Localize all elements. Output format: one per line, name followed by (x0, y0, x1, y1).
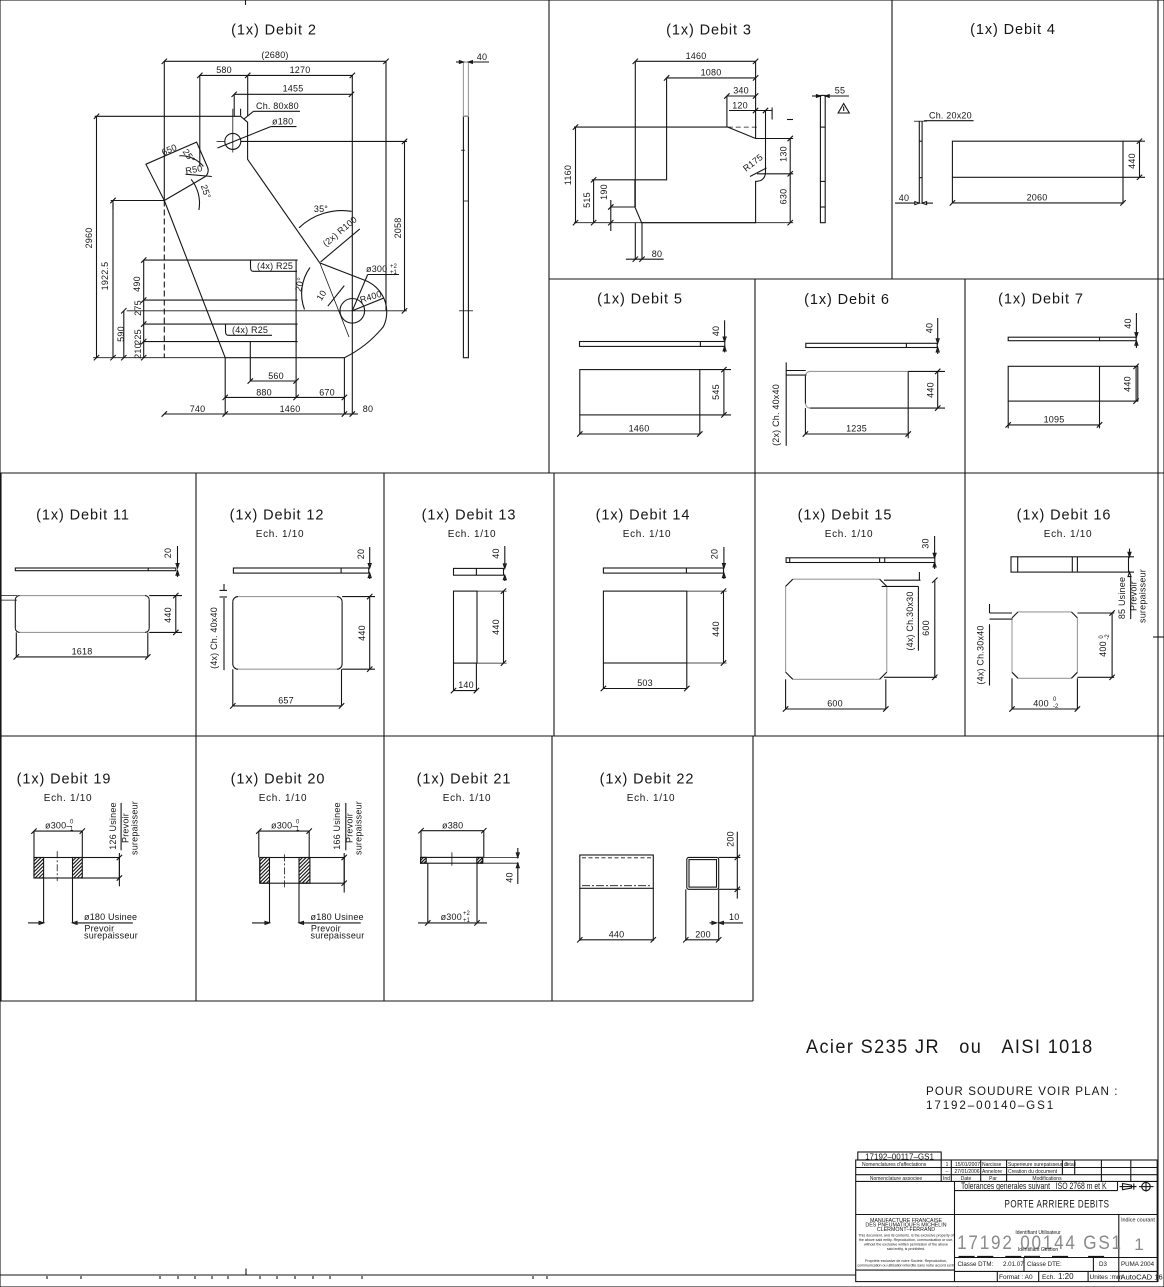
svg-text:Ech. 1/10: Ech. 1/10 (627, 793, 676, 804)
Debit 19 bore projection lines (44, 878, 73, 923)
svg-text:880: 880 (256, 388, 272, 398)
svg-text:(1x) Debit 16: (1x) Debit 16 (1017, 508, 1112, 524)
Debit 14 dimension 440 (711, 588, 726, 665)
svg-text:(4x) R25: (4x) R25 (232, 325, 268, 335)
svg-text:Unites :mm: Unites :mm (1090, 1274, 1123, 1281)
svg-text:1460: 1460 (686, 51, 707, 61)
Debit 2 angle 20 (293, 268, 310, 310)
svg-text:40: 40 (899, 193, 909, 203)
svg-text:440: 440 (491, 619, 501, 635)
svg-text:40: 40 (711, 326, 721, 336)
svg-text:1: 1 (1134, 1235, 1143, 1254)
Debit 22 tube section (686, 857, 719, 940)
svg-text:210: 210 (133, 343, 143, 359)
Debit 2 pocket lower label (4x) R25 (226, 324, 273, 336)
Debit 4 part rectangle (952, 141, 1123, 177)
Debit 5 dimension 1460 (577, 415, 702, 437)
svg-text:Tolerances generales suivant: Tolerances generales suivant ISO 2768 m … (961, 1181, 1107, 1191)
svg-text:(1x) Debit 14: (1x) Debit 14 (596, 508, 691, 524)
Debit 19 flange section (34, 858, 119, 879)
Debit 7 part rectangle (1008, 366, 1138, 428)
svg-text:490: 490 (132, 276, 142, 292)
Debit 20 note Prevoir surepaisseur bottom (311, 924, 365, 941)
svg-text:440: 440 (1127, 153, 1137, 169)
svg-text:(1x) Debit 12: (1x) Debit 12 (230, 508, 325, 524)
Debit 4 chamfer label Ch. 20x20 (924, 111, 974, 121)
svg-text:10: 10 (314, 288, 328, 302)
Debit 6 bar dimension 40 (925, 318, 940, 354)
Debit 21 centerline tick (451, 852, 453, 865)
Debit 15 dimension 600 bottom (783, 679, 889, 711)
Debit 3 dimension 1460 (633, 51, 759, 207)
svg-text:surepaisseur: surepaisseur (354, 801, 364, 855)
Debit 6 part outline (805, 371, 908, 438)
Debit 2 side bar (459, 62, 473, 358)
svg-text:440: 440 (926, 382, 936, 398)
Debit 20 note Prevoir surepaisseur right (345, 801, 364, 855)
Debit 11 part outline (0, 596, 149, 633)
Debit 2 dimension 560 (248, 342, 299, 384)
svg-text:ø180 Usinee: ø180 Usinee (84, 912, 137, 922)
title block row headers (870, 1176, 1062, 1182)
Debit 3 side bar dimension 55 (812, 86, 849, 98)
svg-text:657: 657 (278, 696, 294, 706)
svg-text:1455: 1455 (283, 84, 304, 94)
Debit 2 tab angle 25 bottom (111, 179, 213, 210)
svg-text:surepaisseur: surepaisseur (1138, 569, 1148, 623)
Debit 4 side bar dimension 40 (895, 193, 933, 205)
Debit 2 dimension 1455 (232, 84, 355, 117)
Debit 16 bar dimension 85 Usinee (1117, 549, 1134, 620)
svg-text:400: 400 (1033, 699, 1049, 709)
Debit 12 dimension 657 (230, 669, 344, 708)
svg-text:Indice courant: Indice courant (1121, 1218, 1155, 1224)
svg-text:440: 440 (357, 625, 367, 641)
company name (865, 1218, 946, 1233)
Debit 2 dimension 2058 (241, 139, 407, 314)
svg-text:Acier S235 JR ou AISI 1018: Acier S235 JR ou AISI 1018 (806, 1035, 1094, 1057)
Debit 13 dimension 440 (491, 588, 506, 665)
Debit 14 dimension 503 (601, 663, 690, 691)
svg-text:+2: +2 (463, 911, 471, 917)
Debit 11 bar dimension 20 (163, 546, 179, 577)
svg-text:(4x) R25: (4x) R25 (257, 261, 293, 271)
title block row creation (946, 1169, 1058, 1175)
svg-text:PORTE ARRIERE DEBITS: PORTE ARRIERE DEBITS (1005, 1198, 1110, 1211)
svg-text:(1x) Debit 4: (1x) Debit 4 (970, 22, 1056, 38)
svg-text:said entity, is prohibited.: said entity, is prohibited. (887, 1247, 925, 1251)
svg-text:1460: 1460 (629, 424, 650, 434)
svg-text:1460: 1460 (280, 404, 301, 414)
Debit 3 dimension 80 (626, 223, 664, 262)
Debit 13 bar dimension 40 (491, 546, 506, 581)
Debit 12 bar dimension 20 (356, 547, 371, 579)
svg-text:Annelore: Annelore (982, 1169, 1002, 1175)
svg-text:126 Usinee: 126 Usinee (108, 802, 118, 850)
svg-text:30: 30 (921, 538, 931, 548)
Debit 11 dimension 1618 (14, 632, 151, 659)
Debit 13 part rectangle (454, 591, 507, 663)
svg-text:(4x) Ch.30x30: (4x) Ch.30x30 (905, 591, 915, 650)
svg-text:1:20: 1:20 (1058, 1272, 1074, 1281)
svg-text:560: 560 (268, 371, 284, 381)
svg-text:Ech. 1/10: Ech. 1/10 (1044, 529, 1093, 540)
svg-text:15/01/2007: 15/01/2007 (955, 1162, 980, 1168)
Debit 7 dimension 440 (1123, 364, 1139, 404)
bottom ruler dots (47, 1276, 547, 1279)
Debit 19 boss projection lines (34, 831, 82, 857)
sheet edge tick right (1153, 636, 1164, 638)
Debit 19 note Prevoir surepaisseur bottom (84, 924, 138, 941)
Debit 15 part outline octagon (786, 579, 887, 679)
svg-text:Ech. 1/10: Ech. 1/10 (448, 529, 497, 540)
svg-text:140: 140 (458, 680, 474, 690)
svg-text:(1x) Debit 21: (1x) Debit 21 (417, 772, 512, 788)
svg-text:ø180: ø180 (272, 117, 293, 127)
svg-text:80: 80 (652, 249, 662, 259)
Debit 2 hole circle d180 (217, 109, 241, 153)
Debit 20 bore projection lines (270, 883, 300, 923)
Debit 16 dimension 400 right (1077, 610, 1114, 680)
Debit 4 side bar (914, 121, 927, 203)
svg-text:130: 130 (779, 146, 789, 162)
Debit 3 dimension 1080 (664, 68, 758, 128)
svg-text:(1x) Debit 11: (1x) Debit 11 (36, 508, 130, 524)
svg-text:+1: +1 (390, 270, 398, 276)
svg-text:Ch. 20x20: Ch. 20x20 (929, 111, 972, 121)
Debit 12 top bar (233, 568, 368, 573)
Debit 2 hole circle d300 (127, 263, 407, 337)
Debit 20 boss projection lines (259, 831, 309, 857)
svg-text:(1x) Debit 7: (1x) Debit 7 (998, 292, 1084, 308)
svg-text:630: 630 (779, 189, 789, 205)
svg-text:ø180 Usinee: ø180 Usinee (311, 912, 364, 922)
svg-text:Classe DTM:: Classe DTM: (958, 1261, 994, 1268)
Debit 2 dimension 1922.5 (100, 198, 116, 361)
sheet fold tick top (245, 0, 247, 5)
svg-text:1618: 1618 (72, 647, 93, 657)
Debit 19 dimension 126 Usinee (108, 802, 122, 886)
svg-text:740: 740 (190, 404, 206, 414)
svg-text:1270: 1270 (290, 65, 311, 75)
Debit 11 dimension 440 (149, 593, 182, 635)
svg-text:surepaisseur: surepaisseur (311, 930, 365, 940)
Debit 19 hole label d300 (31, 820, 85, 834)
Debit 2 dimension column 490 275 225 210 (132, 257, 146, 360)
Debit 3 fillet label R175 (741, 152, 766, 177)
Debit 2 dimension 580 (197, 65, 250, 166)
svg-text:40: 40 (477, 52, 487, 62)
svg-text:This document, and its content: This document, and its contents, is the … (858, 1234, 953, 1238)
Debit 3 warning triangle (838, 104, 849, 114)
Debit 2 part outline (95, 116, 387, 357)
Debit 3 dimension 340 (724, 86, 758, 128)
svg-text:Ech. 1/10: Ech. 1/10 (259, 793, 308, 804)
Debit 2 dimension (2680) (162, 50, 389, 358)
Debit 7 dimension 1095 (1006, 401, 1103, 428)
svg-text:2.01.07: 2.01.07 (1003, 1261, 1024, 1268)
svg-text:0: 0 (296, 820, 300, 826)
svg-text:2960: 2960 (84, 228, 94, 249)
Debit 15 chamfer label (4x) Ch.30x30 (882, 572, 921, 651)
Debit 3 side bar (820, 95, 825, 222)
svg-text:166 Usinee: 166 Usinee (332, 802, 342, 850)
svg-text:(4x) Ch. 40x40: (4x) Ch. 40x40 (209, 607, 219, 669)
svg-text:1095: 1095 (1044, 415, 1065, 425)
svg-text:1080: 1080 (701, 68, 722, 78)
Debit 2 dimension 1270 (248, 65, 355, 311)
svg-text:(1x) Debit 22: (1x) Debit 22 (600, 772, 695, 788)
Debit 7 top bar (1008, 337, 1136, 341)
svg-text:440: 440 (711, 621, 721, 637)
svg-text:Ech.: Ech. (1042, 1274, 1055, 1281)
Debit 2 dimension 80 (344, 311, 373, 417)
svg-text:1160: 1160 (563, 165, 573, 185)
svg-text:(2680): (2680) (261, 50, 288, 60)
svg-text:Ind: Ind (943, 1176, 950, 1182)
svg-text:(1x) Debit 3: (1x) Debit 3 (666, 23, 752, 39)
Debit 5 dimension 545 (700, 367, 731, 418)
form blank dashes (959, 1255, 1105, 1257)
svg-text:40: 40 (505, 872, 515, 882)
Debit 15 dimension 600 right (884, 578, 938, 681)
svg-text:Ech. 1/10: Ech. 1/10 (825, 529, 874, 540)
Debit 21 plate section (421, 857, 519, 863)
Debit 19 centerline (56, 851, 58, 881)
svg-text:340: 340 (733, 86, 749, 96)
Debit 2 dimension 880 (223, 300, 299, 400)
Debit 16 top bar (1011, 557, 1129, 572)
svg-text:Ech. 1/10: Ech. 1/10 (443, 793, 492, 804)
legal text en (858, 1234, 953, 1252)
title block row nomenclatures (862, 1162, 1076, 1168)
Debit 2 chamfer label Ch. 80x80 (241, 101, 300, 119)
svg-text:440: 440 (1123, 376, 1133, 392)
Debit 12 chamfer label (4x) Ch. 40x40 (209, 584, 227, 670)
svg-text:80: 80 (363, 404, 373, 414)
svg-text:Creation du document: Creation du document (1008, 1169, 1058, 1175)
Debit 4 dimension 440 (1123, 139, 1145, 181)
svg-text:20: 20 (163, 548, 173, 558)
svg-text:ø380: ø380 (442, 821, 463, 831)
svg-text:55: 55 (835, 86, 845, 96)
svg-text:ø300: ø300 (366, 264, 387, 274)
svg-text:(1x) Debit 15: (1x) Debit 15 (798, 508, 893, 524)
svg-text:25°: 25° (199, 183, 213, 200)
svg-text:225: 225 (133, 329, 143, 345)
Debit 2 pocket upper (144, 260, 298, 300)
svg-text:D3: D3 (1099, 1261, 1107, 1268)
svg-text:without the exclusive written: without the exclusive written permission… (864, 1243, 948, 1247)
svg-text:–: – (946, 1169, 949, 1175)
svg-text:0: 0 (1053, 697, 1057, 703)
Debit 20 label d180 Usinee (252, 912, 364, 924)
svg-text:(2x) Ch. 40x40: (2x) Ch. 40x40 (771, 384, 781, 446)
title block frame (856, 1152, 1157, 1282)
Debit 21 dimension 40 (505, 848, 520, 884)
svg-text:Nomenclatures d'affectations: Nomenclatures d'affectations (862, 1162, 927, 1168)
Debit 21 hole label d380 (418, 821, 486, 834)
legal text fr (857, 1259, 954, 1268)
Debit 16 note Prevoir surepaisseur right (1129, 569, 1148, 623)
svg-text:Ech. 1/10: Ech. 1/10 (623, 529, 672, 540)
svg-text:ø300–: ø300– (271, 821, 298, 831)
Debit 22 dimension 200 bottom (683, 930, 721, 943)
svg-text:Ech. 1/10: Ech. 1/10 (44, 793, 93, 804)
svg-text:ø300: ø300 (441, 912, 462, 922)
Debit 7 bar dimension 40 (1123, 313, 1138, 348)
svg-text:440: 440 (609, 930, 625, 940)
projection symbol target (1139, 1182, 1154, 1192)
projection symbol cone (1120, 1184, 1137, 1190)
Debit 2 tab fillet label R50 (185, 163, 212, 176)
Debit 22 dimension 10 wall (710, 912, 744, 924)
svg-text:670: 670 (319, 388, 335, 398)
svg-text:85 Usinee: 85 Usinee (1117, 577, 1127, 619)
svg-text:600: 600 (827, 699, 843, 709)
Debit 3 dimension 120 (729, 101, 793, 139)
Debit 15 bar dimension 30 (921, 536, 937, 569)
Debit 5 bar dimension 40 (711, 320, 726, 352)
svg-text:503: 503 (637, 678, 653, 688)
Debit 13 dimension 140 (451, 663, 479, 693)
svg-text:200: 200 (695, 930, 711, 940)
Debit 13 top bar (454, 568, 504, 575)
Debit 2 fillet label R400 (352, 289, 384, 311)
Debit 6 chamfer label (2x) Ch. 40x40 (771, 362, 807, 446)
format row (999, 1272, 1163, 1282)
Debit 3 dimension 1160 (563, 124, 667, 225)
svg-text:40: 40 (1123, 318, 1133, 328)
svg-text:surepaisseur: surepaisseur (130, 801, 140, 855)
svg-text:Nomenclature associee: Nomenclature associee (870, 1176, 922, 1182)
svg-text:CLERMONT–FERRAND: CLERMONT–FERRAND (877, 1227, 935, 1233)
Debit 2 hole label d180 (218, 117, 297, 149)
Debit 22 dimension 200 right (719, 831, 741, 898)
svg-text:Propriete exclusive de notre S: Propriete exclusive de notre Societe. Re… (865, 1259, 947, 1263)
Debit 2 side bar dimension 40 (456, 52, 489, 63)
svg-text:Ech. 1/10: Ech. 1/10 (256, 529, 305, 540)
Debit 19 note Prevoir surepaisseur right (121, 801, 140, 855)
Debit 3 part outline (635, 127, 766, 223)
Debit 2 angle 35 (299, 204, 352, 228)
svg-text:the above said entity. Reprod: the above said entity. Reproduction, com… (859, 1238, 953, 1242)
Debit 3 bottom edge extension (574, 222, 793, 224)
Debit 20 dimension 166 Usinee (332, 802, 347, 892)
Debit 2 dimension 1460 (225, 358, 347, 417)
svg-text:Narcisse: Narcisse (982, 1162, 1002, 1168)
svg-text:2058: 2058 (393, 218, 403, 239)
Debit 16 part outline octagon (1012, 612, 1077, 678)
Debit 2 hole label d300 (352, 264, 399, 311)
Debit 2 label (2x) R100 (321, 214, 360, 262)
svg-text:400: 400 (1098, 641, 1108, 657)
svg-text:190: 190 (599, 184, 609, 200)
Debit 2 pocket upper label (4x) R25 (251, 260, 298, 272)
Debit 4 dimension 2060 (950, 177, 1126, 205)
Debit 14 part rectangle (603, 591, 726, 663)
svg-text:20: 20 (356, 549, 366, 559)
Debit 21 bore projection lines (428, 863, 477, 922)
svg-text:(1x) Debit 6: (1x) Debit 6 (804, 292, 890, 308)
svg-text:ø300–: ø300– (45, 821, 72, 831)
svg-text:545: 545 (711, 384, 721, 400)
Debit 2 dimension 2960 (84, 114, 99, 361)
svg-text:590: 590 (116, 326, 126, 342)
Debit 11 top bar (15, 568, 176, 571)
svg-text:40: 40 (925, 323, 935, 333)
svg-text:-2: -2 (1105, 634, 1111, 640)
svg-text:515: 515 (582, 192, 592, 208)
svg-text:(1x) Debit 13: (1x) Debit 13 (422, 508, 517, 524)
svg-text:1: 1 (946, 1162, 949, 1168)
svg-text:40: 40 (491, 548, 501, 558)
svg-text:2060: 2060 (1027, 193, 1048, 203)
Debit 3 dimension 190 (599, 184, 635, 231)
Debit 5 top bar (580, 342, 725, 347)
svg-text:R400: R400 (359, 289, 383, 305)
svg-text:17192–00117–GS1: 17192–00117–GS1 (865, 1152, 934, 1161)
svg-text:580: 580 (216, 65, 232, 75)
Debit 12 part outline (233, 597, 342, 670)
svg-text:600: 600 (921, 620, 931, 636)
Debit 14 bar dimension 20 (710, 547, 726, 579)
svg-text:(1x) Debit 5: (1x) Debit 5 (597, 292, 683, 308)
svg-text:10: 10 (729, 912, 739, 922)
svg-text:200: 200 (726, 831, 736, 847)
Debit 19 label d180 Usinee (28, 912, 137, 924)
svg-text:POUR SOUDURE VOIR PLAN :: POUR SOUDURE VOIR PLAN : (926, 1085, 1119, 1098)
svg-text:PUMA 2004: PUMA 2004 (1121, 1261, 1155, 1268)
Debit 6 top bar (806, 343, 937, 347)
Debit 3 dimension 130 (757, 136, 793, 177)
svg-text:Classe DTE:: Classe DTE: (1027, 1261, 1062, 1268)
Debit 2 label 10 (314, 286, 344, 307)
Debit 20 hole label d300 (256, 820, 312, 834)
svg-text:(4x) Ch.30x40: (4x) Ch.30x40 (976, 625, 986, 684)
Debit 2 dimension 740 (162, 358, 228, 417)
Debit 15 top bar (786, 558, 935, 563)
Debit 16 dimension 400 bottom (1009, 678, 1080, 711)
Debit 22 side view (580, 855, 654, 941)
Debit 16 chamfer label (4x) Ch.30x40 (976, 604, 1013, 686)
Debit 2 dimension 670 (296, 388, 347, 401)
Debit 5 part rectangle (580, 370, 700, 415)
svg-text:(2x) R100: (2x) R100 (321, 214, 359, 248)
Debit 3 dimension 515 (582, 177, 635, 225)
Debit 21 projection lines top (421, 831, 484, 858)
Debit 6 dimension 1235 (803, 408, 911, 437)
svg-text:17192–00140–GS1: 17192–00140–GS1 (926, 1099, 1055, 1112)
svg-text:(1x) Debit 19: (1x) Debit 19 (17, 772, 112, 788)
svg-text:AutoCAD 16: AutoCAD 16 (1121, 1272, 1163, 1281)
svg-text:440: 440 (163, 607, 173, 623)
svg-text:Identifiant Gestion: Identifiant Gestion (1018, 1247, 1059, 1253)
Debit 2 tab angle 25 top (179, 147, 203, 166)
Debit 20 centerline (284, 854, 286, 889)
Debit 2 dimension 590 (116, 308, 127, 360)
Debit 2 bottom edge extension (93, 357, 225, 359)
Debit 14 top bar (603, 568, 723, 573)
svg-text:(1x) Debit 20: (1x) Debit 20 (231, 772, 326, 788)
Debit 22 dimension 440 (577, 930, 656, 943)
Debit 12 dimension 440 (342, 594, 375, 672)
svg-text:communication ou utilisation i: communication ou utilisation interdite s… (857, 1264, 954, 1268)
svg-text:Ch. 80x80: Ch. 80x80 (256, 101, 299, 111)
svg-text:surepaisseur: surepaisseur (84, 930, 138, 940)
svg-text:(1x) Debit 2: (1x) Debit 2 (231, 23, 317, 39)
svg-text:0: 0 (70, 820, 74, 826)
